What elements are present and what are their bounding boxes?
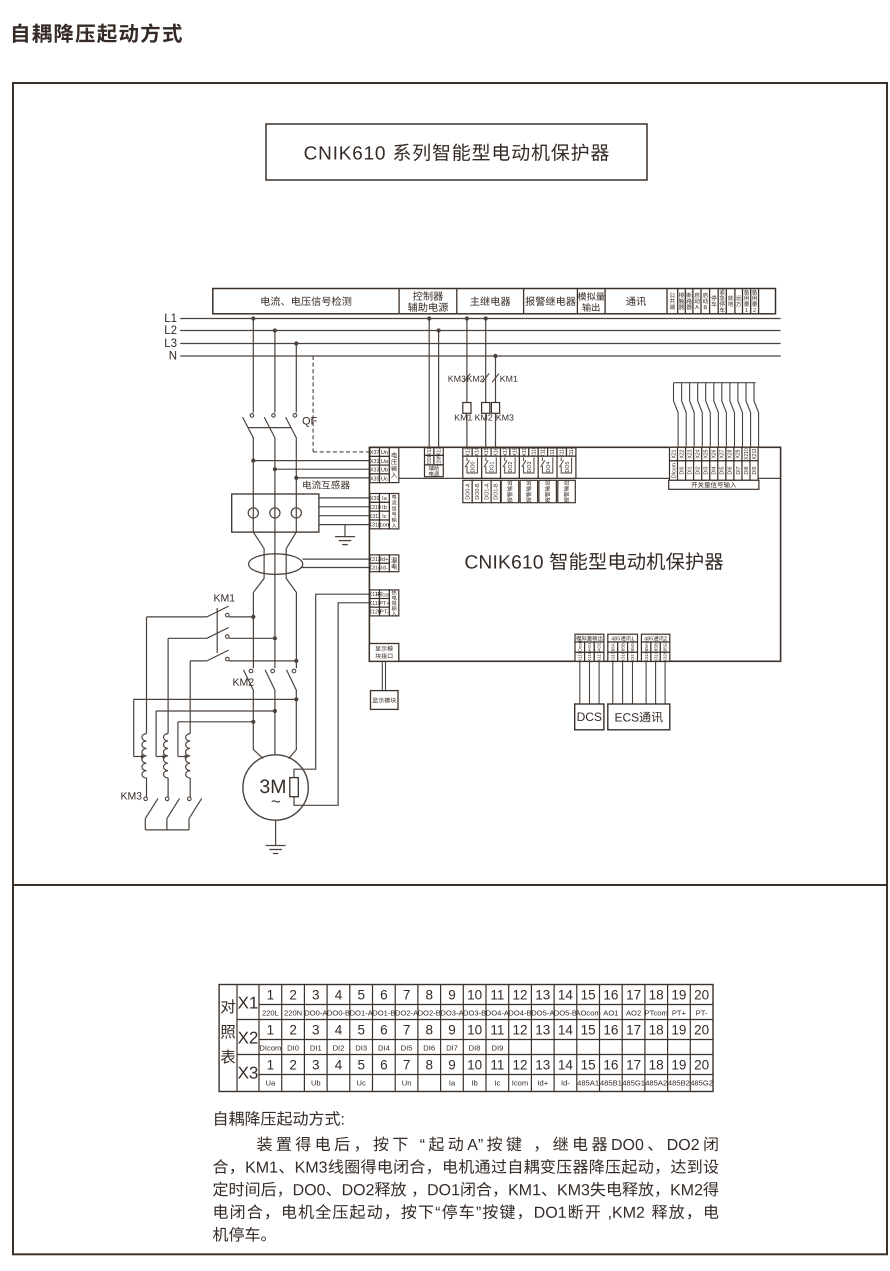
svg-text:PT+: PT+ xyxy=(379,601,390,607)
svg-text:20: 20 xyxy=(694,1057,709,1072)
svg-text:DI4: DI4 xyxy=(378,1043,390,1052)
svg-text:X19: X19 xyxy=(522,447,528,456)
svg-text:X37: X37 xyxy=(370,450,379,456)
svg-text:~: ~ xyxy=(271,792,281,811)
svg-text:X311: X311 xyxy=(369,514,381,520)
svg-text:15: 15 xyxy=(581,1022,596,1037)
svg-text:DI2: DI2 xyxy=(333,1043,345,1052)
svg-text:220L: 220L xyxy=(262,1008,279,1017)
svg-text:AO2: AO2 xyxy=(626,1008,641,1017)
svg-text:Un: Un xyxy=(381,450,388,456)
svg-text:DI0: DI0 xyxy=(287,1043,299,1052)
svg-text:DO4: DO4 xyxy=(546,462,552,473)
svg-text:18: 18 xyxy=(649,1022,664,1037)
svg-text:16: 16 xyxy=(603,1057,618,1072)
svg-text:X24: X24 xyxy=(696,449,702,458)
svg-text:DI8: DI8 xyxy=(744,466,750,474)
svg-text:DO2-B: DO2-B xyxy=(418,1008,441,1017)
svg-text:L3: L3 xyxy=(164,338,177,350)
svg-text:220L: 220L xyxy=(427,454,433,465)
svg-text:DI5: DI5 xyxy=(720,466,726,474)
svg-text:6: 6 xyxy=(380,987,388,1002)
svg-text:15: 15 xyxy=(581,1057,596,1072)
svg-text:DO4-B: DO4-B xyxy=(508,1008,531,1017)
svg-text:1: 1 xyxy=(267,987,275,1002)
svg-text:X318: X318 xyxy=(644,651,649,662)
svg-text:19: 19 xyxy=(671,1022,686,1037)
svg-text:20: 20 xyxy=(694,1022,709,1037)
svg-text:X211: X211 xyxy=(752,448,758,460)
svg-text:AO1: AO1 xyxy=(603,1008,618,1017)
svg-text:20: 20 xyxy=(694,987,709,1002)
svg-text:X115: X115 xyxy=(578,651,583,662)
svg-text:X17: X17 xyxy=(503,447,509,456)
svg-text:1: 1 xyxy=(267,1022,275,1037)
svg-text:X25: X25 xyxy=(704,449,710,458)
svg-text:DI0: DI0 xyxy=(679,466,685,474)
svg-text:9: 9 xyxy=(448,987,456,1002)
svg-text:DO1-A: DO1-A xyxy=(350,1008,374,1017)
svg-text:DO0-A: DO0-A xyxy=(304,1008,328,1017)
svg-text:Ia: Ia xyxy=(382,496,388,502)
svg-text:DO3: DO3 xyxy=(527,462,533,473)
svg-text:DI4: DI4 xyxy=(712,466,718,474)
svg-text:N: N xyxy=(169,351,177,363)
svg-text:Ua: Ua xyxy=(381,459,389,465)
svg-text:Id-: Id- xyxy=(561,1078,570,1087)
svg-text:DI5: DI5 xyxy=(401,1043,413,1052)
svg-text:Id-: Id- xyxy=(381,566,388,572)
svg-text:DO4-A: DO4-A xyxy=(486,1008,510,1017)
svg-text:X319: X319 xyxy=(653,651,658,662)
svg-text:X35: X35 xyxy=(370,476,379,482)
svg-text:X21: X21 xyxy=(671,449,677,458)
svg-text:AO1: AO1 xyxy=(587,642,592,652)
svg-text:X320: X320 xyxy=(663,651,668,662)
svg-text:L2: L2 xyxy=(164,325,177,337)
svg-text:Ib: Ib xyxy=(382,505,387,511)
svg-text:485A1: 485A1 xyxy=(577,1078,599,1087)
svg-text:17: 17 xyxy=(626,1057,641,1072)
svg-text:16: 16 xyxy=(603,1022,618,1037)
svg-text:X18: X18 xyxy=(512,447,518,456)
svg-text:Ua: Ua xyxy=(266,1078,276,1087)
svg-text:X117: X117 xyxy=(597,651,602,662)
svg-text:4: 4 xyxy=(335,1022,343,1037)
svg-text:10: 10 xyxy=(467,1057,482,1072)
svg-text:X26: X26 xyxy=(712,449,718,458)
svg-text:X22: X22 xyxy=(679,449,685,458)
svg-text:6: 6 xyxy=(380,1057,388,1072)
svg-text:X23: X23 xyxy=(687,449,693,458)
svg-text:14: 14 xyxy=(558,987,574,1002)
svg-text:18: 18 xyxy=(649,1057,664,1072)
svg-text:X14: X14 xyxy=(475,447,481,456)
svg-text:485B2: 485B2 xyxy=(668,1078,690,1087)
svg-text:DO3-A: DO3-A xyxy=(440,1008,464,1017)
svg-text:Ib: Ib xyxy=(471,1078,477,1087)
svg-text:9: 9 xyxy=(448,1022,456,1037)
svg-text:13: 13 xyxy=(535,987,550,1002)
svg-text:2: 2 xyxy=(289,987,297,1002)
svg-text:6: 6 xyxy=(380,1022,388,1037)
svg-text:9: 9 xyxy=(448,1057,456,1072)
svg-text:485G2: 485G2 xyxy=(690,1078,713,1087)
svg-text:14: 14 xyxy=(558,1057,574,1072)
svg-text:Un: Un xyxy=(402,1078,412,1087)
svg-text:12: 12 xyxy=(512,987,527,1002)
svg-text:PT-: PT- xyxy=(380,610,389,616)
svg-text:X316: X316 xyxy=(620,651,625,662)
svg-text:X16: X16 xyxy=(494,447,500,456)
svg-text:X317: X317 xyxy=(630,651,635,662)
svg-text:Icom: Icom xyxy=(512,1078,528,1087)
svg-text:7: 7 xyxy=(403,1022,411,1037)
svg-text:X314: X314 xyxy=(369,565,381,571)
svg-text:X33: X33 xyxy=(370,468,379,474)
svg-text:Ic: Ic xyxy=(382,514,387,520)
svg-text:X28: X28 xyxy=(728,449,734,458)
svg-text:4: 4 xyxy=(335,987,343,1002)
svg-text:18: 18 xyxy=(649,987,664,1002)
svg-text:DI8: DI8 xyxy=(469,1043,481,1052)
svg-text:X13: X13 xyxy=(465,447,471,456)
svg-text:DO1-B: DO1-B xyxy=(494,483,500,500)
svg-text:DO2-A: DO2-A xyxy=(395,1008,419,1017)
svg-text:DO0-A: DO0-A xyxy=(465,483,471,500)
svg-text:DI7: DI7 xyxy=(736,466,742,474)
svg-text:Ia: Ia xyxy=(449,1078,456,1087)
svg-text:16: 16 xyxy=(603,987,618,1002)
svg-text:19: 19 xyxy=(671,1057,686,1072)
svg-text:DO2: DO2 xyxy=(508,462,514,473)
svg-text:11: 11 xyxy=(490,1057,504,1072)
svg-text:220N: 220N xyxy=(436,454,442,466)
svg-text:10: 10 xyxy=(467,987,482,1002)
svg-text:DO5-A: DO5-A xyxy=(531,1008,555,1017)
svg-text:DO0: DO0 xyxy=(471,462,477,473)
svg-text:DCS: DCS xyxy=(577,710,602,724)
svg-text:12: 12 xyxy=(512,1057,527,1072)
svg-text:3: 3 xyxy=(312,987,320,1002)
svg-text:3: 3 xyxy=(312,1057,320,1072)
svg-text:Uc: Uc xyxy=(357,1078,366,1087)
svg-text:X15: X15 xyxy=(484,447,490,456)
svg-text:Ic: Ic xyxy=(494,1078,500,1087)
svg-text:7: 7 xyxy=(403,1057,411,1072)
svg-text:14: 14 xyxy=(558,1022,574,1037)
svg-text:DI2: DI2 xyxy=(696,466,702,474)
svg-text:DO1-B: DO1-B xyxy=(372,1008,395,1017)
svg-text:Id+: Id+ xyxy=(380,557,389,563)
svg-text:10: 10 xyxy=(467,1022,482,1037)
svg-text:2: 2 xyxy=(289,1057,297,1072)
svg-text:QF: QF xyxy=(302,416,318,428)
svg-text:DI1: DI1 xyxy=(688,466,694,474)
svg-text:X29: X29 xyxy=(736,449,742,458)
svg-text:Uc: Uc xyxy=(381,476,388,482)
svg-text:X315: X315 xyxy=(610,651,615,662)
svg-text:11: 11 xyxy=(490,1022,504,1037)
svg-text:DO3-B: DO3-B xyxy=(463,1008,486,1017)
svg-text:Ub: Ub xyxy=(381,468,388,474)
svg-text:11: 11 xyxy=(490,987,504,1002)
svg-text:17: 17 xyxy=(626,1022,641,1037)
svg-text:1: 1 xyxy=(267,1057,275,1072)
svg-text:13: 13 xyxy=(535,1057,550,1072)
svg-text:3: 3 xyxy=(312,1022,320,1037)
svg-text:DO1: DO1 xyxy=(489,462,495,473)
svg-text:AOcom: AOcom xyxy=(575,1008,600,1017)
svg-text:DO0-B: DO0-B xyxy=(327,1008,350,1017)
svg-text:DI9: DI9 xyxy=(491,1043,503,1052)
svg-text:DIcom: DIcom xyxy=(259,1043,281,1052)
svg-text:X39: X39 xyxy=(370,496,379,502)
svg-text:2: 2 xyxy=(289,1022,297,1037)
svg-text:DO0-B: DO0-B xyxy=(475,483,481,500)
svg-text:13: 13 xyxy=(535,1022,550,1037)
svg-text:15: 15 xyxy=(581,987,596,1002)
svg-text:5: 5 xyxy=(357,1022,365,1037)
svg-text:AO2: AO2 xyxy=(597,642,602,652)
svg-text:DO5: DO5 xyxy=(565,462,571,473)
svg-text:5: 5 xyxy=(357,987,365,1002)
svg-text:DI3: DI3 xyxy=(704,466,710,474)
svg-text:DO1-A: DO1-A xyxy=(484,483,490,500)
svg-text:X31: X31 xyxy=(370,459,379,465)
svg-text:X27: X27 xyxy=(720,449,726,458)
svg-text:7: 7 xyxy=(403,987,411,1002)
svg-text:X310: X310 xyxy=(369,505,381,511)
svg-text:X116: X116 xyxy=(587,651,592,662)
svg-text:PT-: PT- xyxy=(696,1008,708,1017)
svg-text:DI9: DI9 xyxy=(752,466,758,474)
svg-text:4: 4 xyxy=(335,1057,343,1072)
svg-text:220N: 220N xyxy=(284,1008,302,1017)
svg-text:8: 8 xyxy=(425,1057,433,1072)
svg-text:12: 12 xyxy=(512,1022,527,1037)
svg-text:485G1: 485G1 xyxy=(622,1078,645,1087)
svg-text:DIcom: DIcom xyxy=(671,463,677,478)
svg-text:X210: X210 xyxy=(744,448,750,460)
svg-text:DI6: DI6 xyxy=(423,1043,435,1052)
svg-text:DI7: DI7 xyxy=(446,1043,458,1052)
svg-text:DI3: DI3 xyxy=(355,1043,367,1052)
svg-text:PT+: PT+ xyxy=(672,1008,687,1017)
svg-text:8: 8 xyxy=(425,987,433,1002)
svg-text:Ub: Ub xyxy=(311,1078,321,1087)
svg-text:DI1: DI1 xyxy=(310,1043,322,1052)
svg-text:PTcom: PTcom xyxy=(645,1008,668,1017)
svg-text:DI6: DI6 xyxy=(728,466,734,474)
svg-text:X313: X313 xyxy=(369,557,381,563)
svg-text:L1: L1 xyxy=(164,313,177,325)
svg-text:5: 5 xyxy=(357,1057,365,1072)
svg-text:8: 8 xyxy=(425,1022,433,1037)
svg-text:17: 17 xyxy=(626,987,641,1002)
svg-text:Id+: Id+ xyxy=(537,1078,548,1087)
svg-text:DO5-B: DO5-B xyxy=(554,1008,577,1017)
svg-text:19: 19 xyxy=(671,987,686,1002)
svg-text:485B1: 485B1 xyxy=(600,1078,622,1087)
svg-text:485A2: 485A2 xyxy=(645,1078,667,1087)
